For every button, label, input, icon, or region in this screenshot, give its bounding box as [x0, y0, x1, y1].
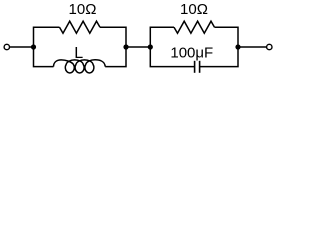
wire: left terminal to node A [10, 46, 34, 48]
left terminal [4, 44, 9, 49]
svg-text:10Ω: 10Ω [180, 1, 208, 18]
svg-text:10Ω: 10Ω [69, 1, 97, 18]
wire: node B to node C [126, 46, 150, 48]
node A junction dot [31, 44, 36, 49]
svg-text:L: L [74, 45, 83, 62]
wire: RC section left vertical with top and bottom leads [150, 27, 194, 66]
resistor 10Ω (right) zigzag [174, 21, 215, 33]
inductor L coil (cursive loops) [54, 60, 106, 73]
wire: RL section left vertical with top and bottom leads [34, 27, 60, 66]
wire: RC section right vertical with top and bottom leads [200, 27, 238, 66]
svg-text:100μF: 100μF [170, 44, 213, 61]
node C junction dot [148, 44, 153, 49]
resistor 10Ω (left) zigzag [60, 21, 101, 33]
right terminal [267, 44, 272, 49]
node B junction dot [123, 44, 128, 49]
capacitor 100μF plates [195, 61, 200, 73]
node D junction dot [235, 44, 240, 49]
wire: node D to right terminal [238, 46, 267, 48]
wire: RL section right vertical with top and bottom leads [100, 27, 126, 66]
